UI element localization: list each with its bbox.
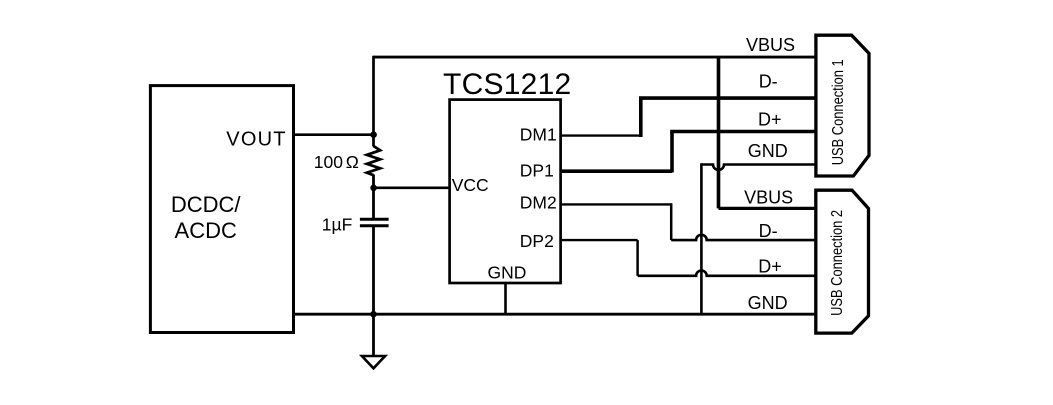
svg-text:VCC: VCC [452, 175, 489, 195]
svg-text:USB Connection 2: USB Connection 2 [829, 210, 846, 316]
svg-text:USB Connection 1: USB Connection 1 [830, 59, 847, 165]
svg-text:VBUS: VBUS [746, 35, 795, 55]
svg-text:D+: D+ [758, 110, 782, 130]
svg-text:ACDC: ACDC [175, 218, 237, 243]
svg-text:DM1: DM1 [520, 124, 557, 144]
svg-text:DM2: DM2 [520, 192, 557, 212]
svg-text:GND: GND [748, 293, 788, 313]
svg-text:D+: D+ [758, 257, 782, 277]
svg-text:TCS1212: TCS1212 [443, 68, 572, 101]
svg-text:VOUT: VOUT [226, 129, 286, 151]
svg-text:VBUS: VBUS [744, 187, 793, 207]
svg-text:DCDC/: DCDC/ [171, 192, 242, 217]
svg-text:100: 100 [314, 152, 343, 172]
svg-text:D-: D- [759, 221, 778, 241]
svg-text:DP2: DP2 [520, 231, 554, 251]
svg-text:1µF: 1µF [322, 214, 353, 234]
svg-text:D-: D- [759, 72, 778, 92]
svg-text:GND: GND [488, 262, 527, 282]
svg-text:DP1: DP1 [520, 161, 554, 181]
svg-text:Ω: Ω [346, 152, 359, 172]
svg-text:GND: GND [748, 141, 788, 161]
